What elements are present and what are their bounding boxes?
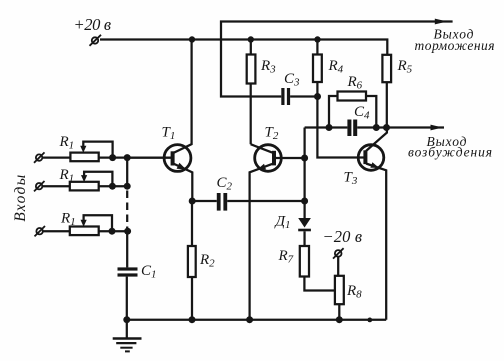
node R4 top on rail — [314, 36, 320, 42]
resistor R8 — [335, 276, 344, 304]
transistor T1 — [164, 145, 191, 172]
terminal -20v — [335, 250, 342, 257]
svg-text:+20 в: +20 в — [74, 15, 112, 34]
wire ground rail — [127, 319, 386, 321]
diode D1 — [298, 218, 311, 228]
svg-text:торможения: торможения — [415, 38, 495, 53]
potentiometer R1 row1 — [70, 153, 98, 162]
transistor T2 — [255, 145, 282, 172]
node T2 base / C2 — [301, 155, 308, 162]
terminal +20v — [92, 37, 98, 43]
node R6 left — [326, 124, 333, 131]
capacitor C2 — [217, 193, 221, 211]
resistor R3 — [250, 40, 252, 55]
ground — [126, 320, 128, 339]
wire input 1 — [42, 156, 70, 158]
node R8 ground — [336, 316, 343, 323]
transistor T3 — [358, 145, 384, 171]
wire R3 bottom to T2 collector — [250, 84, 252, 145]
capacitor C3 — [281, 88, 284, 105]
node T2 emitter ground — [246, 316, 253, 323]
node stray — [367, 318, 372, 323]
node T1 collector on rail — [189, 36, 195, 42]
terminal input 3 — [36, 228, 42, 234]
wire input bus solid — [126, 158, 128, 187]
potentiometer R1 row2 — [70, 182, 99, 191]
wire braking output line — [221, 22, 453, 97]
node R2 ground — [189, 316, 196, 323]
potentiometer R1 row3 — [70, 227, 99, 236]
node R4 bottom / C3 — [314, 93, 321, 100]
wire input 3 — [43, 230, 70, 232]
wire C2 to T2 base node — [227, 200, 304, 202]
resistor R6 — [338, 92, 367, 101]
wire +20V rail — [100, 40, 387, 55]
capacitor C4 — [347, 120, 351, 137]
capacitor C1 — [126, 231, 128, 267]
node C1 ground — [123, 316, 130, 323]
wire emitter node to C2 — [192, 200, 217, 202]
svg-text:Входы: Входы — [12, 175, 29, 222]
terminal input 2 — [36, 183, 42, 189]
wire input 2 — [42, 185, 70, 187]
svg-text:возбуждения: возбуждения — [408, 145, 492, 160]
resistor R7 — [300, 246, 309, 277]
wire excitation output line — [305, 126, 348, 128]
resistor R2 — [191, 201, 193, 246]
wire node to T3 base — [317, 97, 363, 158]
node C2 wire / diode — [301, 198, 308, 205]
svg-text:−20 в: −20 в — [323, 227, 363, 246]
terminal input 1 — [36, 154, 42, 160]
node R5 bottom / T3 collector — [383, 124, 390, 131]
node T1 emitter / C2 / R2 — [189, 198, 196, 205]
wire C3 right to R4 bottom node — [290, 95, 317, 97]
wire input bus dashed — [126, 191, 128, 229]
node R3 top on rail — [248, 36, 254, 42]
resistor R5 — [382, 55, 391, 82]
resistor R4 — [316, 40, 318, 55]
node R6 right — [373, 124, 380, 131]
wire T2 base vertical — [303, 128, 305, 219]
